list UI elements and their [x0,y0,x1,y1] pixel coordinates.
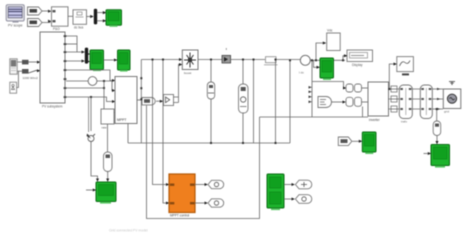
wire A1 to B1 [68,15,73,17]
gate stubs to vertical [174,97,179,103]
diode DD1 [222,48,231,63]
cap branch vertical V248 [242,60,244,144]
3-phase wires inverter to trafo1 [389,89,400,109]
RL pair PR2 [346,97,362,106]
vertical wire V141 [140,60,142,144]
wire PR1 to inverter [362,87,369,89]
PV module source P1 [10,59,17,74]
inline tag T1 [22,60,29,65]
wire B1 to demux D1 [87,16,94,18]
wire O1 out1 to tag G2 [195,184,207,186]
wire PT1 to gate driver G1 [156,100,162,102]
node J2 [90,96,92,98]
irradiance source P2 [10,82,17,93]
wire M2 to scope S2 [88,54,90,62]
wire TJ1 to scope S4 [91,142,98,182]
wire Q1 to diode DD1 [198,59,222,61]
stub into S7 left [424,153,431,155]
capsule VM2 [104,152,113,172]
cap branch vertical V211 [210,60,212,144]
transformer TR2 [420,85,432,119]
node V248 top [242,59,244,61]
wire X1 p2 [66,43,77,45]
capacitor C1 [207,82,214,99]
junction dots on V141 [140,77,142,79]
tick arrows on V312 [309,86,313,103]
svg-text:MPPT control: MPPT control [170,214,190,218]
wire into C1 [316,43,323,60]
X1 output port stubs [64,35,67,98]
wire X1 p1 [66,36,77,52]
wire D1 to scope S1 (upper) [97,12,105,14]
gate wire into IGBT [179,65,183,103]
wire P1 out1 [17,61,22,63]
green scope S3 [118,50,131,72]
wire VM1 to B2 in2 [97,81,115,91]
goto tag G3 [208,199,224,207]
svg-text:dc bus: dc bus [74,26,84,30]
stub into S4 left [86,189,95,191]
wire F1 to A1 [42,10,50,12]
wire X1 p6 to voltage circle VM1 [66,80,88,82]
port tag PT1 [142,98,155,105]
green scope S8 [362,132,376,154]
node J1 on wire [103,80,105,82]
PLL block G6 [318,97,332,108]
wire P2 up to node [17,71,19,87]
svg-text:boost: boost [184,71,192,75]
gate driver G1 [164,95,174,106]
B2 out stub to port tag [137,99,142,101]
wire X1 p8 to B2 in4 [66,97,115,102]
block B3 [101,109,114,130]
vertical V275 [275,60,277,144]
goto tag G2 [208,180,224,188]
RL pair PR1 [346,84,362,92]
block B1 (converter block) [73,10,87,30]
scope U1 (PV scope, monitor icon) [6,5,24,28]
wire into green scope S6 [314,60,320,67]
wire from 3ph to SC2 [389,64,396,89]
ground symbol above grid [449,82,455,85]
return wire y117 [260,116,369,118]
stub B2 in5 [108,112,115,114]
wire VM2 to scope S4 [107,172,109,182]
svg-text:PV scope: PV scope [8,24,23,28]
IGBT block Q1 [182,50,198,75]
wire B2 bottom to dc- rail [127,124,129,144]
vertical wire to MPPT controller in2 [163,60,169,204]
PV array subsystem X1 [40,32,65,109]
block A1 (subsystem 2-in 1-out) [52,7,69,31]
svg-text:1000 W/m2: 1000 W/m2 [23,76,39,80]
wire X1 p7 to B2 in3 [66,87,104,89]
capsule VM3 [433,121,441,136]
grid scope block SC2 [397,57,414,76]
svg-text:PV subsystem: PV subsystem [42,105,63,109]
orange controller block O1 [169,174,195,218]
demux D1 [94,9,97,25]
wire X1 p5 to B2 in1 [66,70,115,81]
from tag F2 [28,19,43,27]
wire F2 to A1 [42,21,50,23]
mux M2 [85,48,88,64]
bottom dc bus [128,142,290,144]
wire P1 out2 [17,70,22,72]
wire X1 p4 to mux M2 [66,60,84,62]
vertical wire to MPPT controller in1 [153,60,169,185]
inductor L1 [264,57,278,65]
wire D1 to scope S1 (lower) [97,20,105,22]
wire PR2 to inverter [362,101,369,103]
goto tag G5 [295,195,311,204]
wire VM3 to green scope S7 [436,136,438,144]
inline tag T2 [22,69,29,74]
vertical V290 [289,60,291,143]
green scope S2 [90,50,104,71]
svg-text:rate: rate [102,126,108,130]
node V275 [275,59,277,61]
capacitor C2 [239,84,249,113]
bus L1 to current circle CM1 [276,59,300,61]
wire S5 out1 to tag G4 [284,184,294,186]
inverter block INV1 [368,82,389,122]
svg-text:Grid connected PV model: Grid connected PV model [109,229,148,233]
grid source GR1 [443,89,461,109]
PLL from tag F4 [338,137,352,146]
transformer TR1 [399,85,412,119]
green scope S4 [96,182,116,204]
wire S2 to S3 [104,59,118,61]
svg-text:MPPT: MPPT [117,118,126,122]
svg-text:I dc: I dc [299,71,304,75]
wires trafo1 to trafo2 [412,89,420,109]
bus CM1 onward [310,59,345,61]
jog down from 3ph to capsule VM3 [436,109,438,121]
vertical V253 [253,60,255,144]
MPPT subsystem B2 [115,77,137,124]
green scope S1 [106,10,122,27]
wire X1 p3 to mux M2 [66,51,84,53]
svg-text:inverter: inverter [369,118,381,122]
wires trafo2 to grid [432,89,443,109]
wire O1 out2 to tag G3 [195,202,207,204]
svg-text:Vdc: Vdc [327,29,333,33]
svg-text:P&O: P&O [53,27,60,31]
node V211 top [210,59,212,61]
block C1 top right (Vdc ref) [327,29,341,51]
wire top y81 to RL pair PR1 [312,82,345,89]
svg-text:trafo: trafo [401,120,407,124]
wire into D2 [343,56,347,61]
wire S5 out2 to tag G5 [284,198,294,200]
green scope S6 [320,58,334,80]
display block D2 [347,50,373,67]
T junction element TJ1 [87,134,96,142]
bus diode to L1 [231,59,265,61]
wire F4 to green scope S8 [352,140,361,142]
wire G6 to RL pair PR2 [332,101,346,103]
3-phase port squares col1 [391,86,397,112]
wire J2 down to T-junction TJ1 [90,97,92,131]
junction dots bottom bus [210,142,212,144]
top dc bus wire [141,59,182,61]
svg-text:grid: grid [444,110,449,114]
current measure circle CM1 [300,55,310,65]
green double scope S5 [267,174,284,210]
wire B3 to capsule VM2 [107,124,109,152]
wire J1 down to B3 [103,81,105,109]
green scope S7 [431,145,450,168]
drop wire to return rail [362,107,364,118]
goto tag G4 [295,180,311,189]
feedback loop wire bottom [147,106,260,219]
circle VM1 [88,77,97,86]
svg-text:Display: Display [352,63,363,67]
from tag F1 [28,7,43,15]
vertical V312 dc rail [311,60,313,117]
